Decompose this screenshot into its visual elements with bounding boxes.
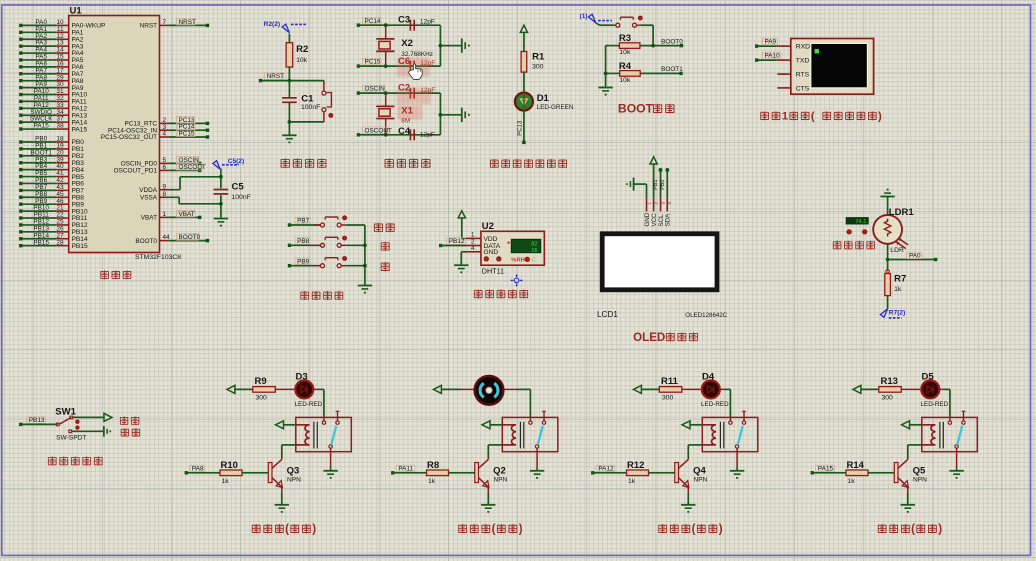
svg-text:OSCIN: OSCIN xyxy=(179,157,200,164)
wire X1 top xyxy=(385,93,387,106)
terminal PB12 xyxy=(439,244,442,247)
svg-text:LDR: LDR xyxy=(890,247,904,254)
wire crystal bus upper xyxy=(439,25,441,66)
wire relay to ground 继电器(除湿) xyxy=(536,448,538,466)
svg-text:PB1: PB1 xyxy=(653,180,659,190)
LDR brightness display xyxy=(846,218,868,224)
ground of Q2 xyxy=(481,505,495,513)
title 串口1窗口（模拟手机端） xyxy=(761,111,769,120)
svg-text:(: ( xyxy=(911,523,915,536)
svg-text:GND: GND xyxy=(484,249,499,256)
relay core 继电器(消毒) xyxy=(719,422,721,449)
wire PB13 to SW1 xyxy=(21,423,58,425)
relay coil 继电器(补光) xyxy=(922,425,936,445)
svg-text:SDA: SDA xyxy=(665,213,672,227)
wire PB8 to button xyxy=(290,244,321,246)
svg-text:(: ( xyxy=(492,523,496,536)
relay coil 继电器(除湿) xyxy=(502,425,516,445)
svg-text:TXD: TXD xyxy=(796,58,810,65)
terminal BOOT0 xyxy=(680,44,683,47)
pin PB6 (pin 42) of U1 xyxy=(21,182,56,184)
svg-text:C: C xyxy=(532,258,536,264)
svg-text:BOOT1: BOOT1 xyxy=(661,66,683,73)
svg-text:PA15: PA15 xyxy=(818,466,834,473)
pin PB10 (pin 21) of U1 xyxy=(21,210,56,212)
wire emitter to ground 继电器(加热) xyxy=(281,487,283,493)
pin PC14-OSC32_IN (pin 3) with net PC14 xyxy=(160,129,169,131)
wire down to relay contact 继电器(消毒) xyxy=(729,389,731,417)
wire VSSA to C5 xyxy=(169,196,180,198)
wire R13 to D5 xyxy=(901,388,921,390)
wire D5 to relay xyxy=(939,388,944,390)
wire emitter to ground 继电器(除湿) xyxy=(487,487,489,493)
wire coil to collector 继电器(除湿) xyxy=(488,444,502,446)
svg-text:VBAT: VBAT xyxy=(179,211,195,218)
resistor R14 xyxy=(846,470,868,476)
svg-text:D1: D1 xyxy=(537,93,550,104)
terminal PA8 xyxy=(185,471,188,474)
svg-text:RXD: RXD xyxy=(796,44,810,51)
wire coil to collector 继电器(消毒) xyxy=(688,444,702,446)
pin VDDA (pin 9) of U1 xyxy=(160,189,169,191)
svg-text:PC15-OSC32_OUT: PC15-OSC32_OUT xyxy=(101,134,157,141)
wire R3 to BOOT0 xyxy=(640,45,682,47)
ground sideways of SW1 xyxy=(104,426,111,437)
capacitor C5 xyxy=(214,189,229,191)
svg-text:1k: 1k xyxy=(222,478,230,485)
wire LDR to PA0 node xyxy=(887,244,889,260)
svg-text:): ) xyxy=(719,523,723,536)
pin NRST (pin 7) of U1 with net NRST xyxy=(160,24,169,26)
wire C5 vertical xyxy=(220,169,222,177)
wire R11 to D4 xyxy=(682,388,702,390)
svg-text:10k: 10k xyxy=(296,57,308,64)
svg-text:BOOT0: BOOT0 xyxy=(135,238,157,245)
pin PC13_RTC (pin 2) with net PC13 xyxy=(160,122,169,124)
resistor R7 xyxy=(885,274,891,296)
ground of Q5 xyxy=(901,505,915,513)
svg-text:SW1: SW1 xyxy=(55,406,76,417)
relay box 继电器(加热) xyxy=(296,417,352,451)
wire PA8 to R10 xyxy=(186,472,220,474)
wire PB7 to button xyxy=(290,224,321,226)
svg-text:NPN: NPN xyxy=(287,477,301,484)
ground above LDR xyxy=(880,189,894,197)
svg-text:): ) xyxy=(938,523,942,536)
terminal PC13 bottom xyxy=(522,141,525,144)
node bus-ground junction upper xyxy=(439,44,443,48)
svg-text:VDD: VDD xyxy=(484,236,498,243)
svg-text:PC15: PC15 xyxy=(365,59,381,66)
svg-text:8M: 8M xyxy=(401,118,410,125)
svg-text:LDR1: LDR1 xyxy=(889,207,915,218)
capacitor C3 xyxy=(409,20,411,31)
svg-text:(1): (1) xyxy=(580,13,588,20)
title 温湿度模块 xyxy=(474,290,482,299)
svg-text:LED-RED: LED-RED xyxy=(701,401,729,408)
pin VSSA (pin 8) of U1 xyxy=(160,196,169,198)
svg-text:X2: X2 xyxy=(401,38,413,49)
terminal BOOT1 xyxy=(679,72,682,75)
capacitor C1 xyxy=(282,97,297,99)
wire D4 to relay xyxy=(720,388,725,390)
node R4 junction xyxy=(604,72,608,76)
ground of relay contact 继电器(消毒) xyxy=(730,471,744,479)
pin VDD of U2 xyxy=(466,237,481,239)
wire PC15 row xyxy=(358,65,440,67)
wire PB9 to button xyxy=(290,265,321,267)
virtual terminal body xyxy=(791,39,874,95)
pin PB3 (pin 39) of U1 xyxy=(21,162,56,164)
svg-text:1: 1 xyxy=(646,202,651,205)
svg-text:PC15: PC15 xyxy=(179,130,195,137)
pin PB11 (pin 22) of U1 xyxy=(21,217,56,219)
svg-text:LCD1: LCD1 xyxy=(597,310,618,319)
terminal PA11 xyxy=(391,471,394,474)
svg-text:%RH: %RH xyxy=(511,258,525,264)
title 程序运行指示灯 xyxy=(490,159,498,168)
pin OSCOUT_PD1 (pin 6) with net OSCOUT xyxy=(160,169,169,171)
LDR adjust buttons xyxy=(847,230,851,234)
svg-text:4: 4 xyxy=(163,131,167,138)
relay core 继电器(加热) xyxy=(313,422,315,449)
svg-text:R4: R4 xyxy=(619,61,632,72)
svg-text:GND: GND xyxy=(644,212,651,226)
svg-text:74.1: 74.1 xyxy=(855,219,866,225)
svg-text:NPN: NPN xyxy=(913,477,927,484)
svg-text:8: 8 xyxy=(163,191,167,198)
wire GND of OLED xyxy=(635,183,647,185)
label 打开 xyxy=(120,416,128,425)
crystal X2 xyxy=(376,38,394,40)
wire arrow to R9 xyxy=(235,388,253,390)
svg-text:R7: R7 xyxy=(894,273,906,284)
pin GND of U2 xyxy=(466,251,481,253)
wire R7 bottom xyxy=(887,296,889,309)
relay contacts 继电器(除湿) xyxy=(529,421,532,424)
node PC15-X2 junction xyxy=(384,64,388,68)
wire PA15 to R14 xyxy=(812,472,846,474)
svg-text:STM32F103C8: STM32F103C8 xyxy=(135,254,181,261)
pin GND of LCD1 xyxy=(646,198,648,211)
svg-text:(: ( xyxy=(285,523,289,536)
pin VBAT (pin 1) with net VBAT xyxy=(160,216,169,218)
svg-text:PA15: PA15 xyxy=(34,123,50,130)
svg-text:1: 1 xyxy=(471,232,475,239)
wire button2 to bus xyxy=(341,244,346,246)
pin PA4 (pin 14) of U1 xyxy=(21,52,56,54)
pin PA10 (pin 31) of U1 xyxy=(21,94,56,96)
svg-text:PB15: PB15 xyxy=(33,239,49,246)
wire R3 left xyxy=(606,45,620,47)
svg-text:10k: 10k xyxy=(619,49,631,56)
terminal PA9 xyxy=(755,44,758,47)
svg-text:5: 5 xyxy=(163,157,167,164)
terminal PA12 xyxy=(591,471,594,474)
title 继电器(除湿) xyxy=(459,524,467,533)
probe marker R7(2) xyxy=(880,309,887,318)
relay box 继电器(消毒) xyxy=(702,417,758,451)
svg-text:R9: R9 xyxy=(255,376,267,387)
pin PA3 (pin 13) of U1 xyxy=(21,45,56,47)
motor/fan of 除湿 module xyxy=(473,375,504,406)
ground of relay contact 继电器(加热) xyxy=(323,471,337,479)
svg-text:12pF: 12pF xyxy=(420,131,435,138)
wire left bus R3-R4 xyxy=(605,46,607,74)
terminal arrow feed 继电器(加热) xyxy=(227,385,235,393)
crystal X1 xyxy=(376,105,394,107)
svg-text:12pF: 12pF xyxy=(420,87,435,94)
diode D5 LED-RED xyxy=(920,379,940,399)
U1 STM32F103C8 main chip body xyxy=(69,16,160,253)
wire crystal bus lower xyxy=(439,93,441,135)
pin PB7 (pin 43) of U1 xyxy=(21,189,56,191)
svg-text:PC13: PC13 xyxy=(517,120,523,136)
svg-text:PA0: PA0 xyxy=(909,252,921,259)
svg-text:Q4: Q4 xyxy=(693,465,706,476)
svg-text:): ) xyxy=(312,523,316,536)
resistor R12 xyxy=(627,470,649,476)
pin PA9 (pin 30) of U1 xyxy=(21,87,56,89)
svg-text:OLED: OLED xyxy=(633,331,665,344)
pin PA5 (pin 15) of U1 xyxy=(21,59,56,61)
ground of OLED xyxy=(626,178,633,191)
LCD1 OLED display module xyxy=(600,231,720,292)
DHT11 U2 body xyxy=(481,231,544,265)
wire C1 top xyxy=(288,81,290,98)
ground of Q4 xyxy=(681,505,695,513)
title 晶振电路 xyxy=(385,158,394,168)
wire reset button bottom xyxy=(323,112,325,122)
wire SCL of OLED xyxy=(660,170,662,198)
svg-text:100nF: 100nF xyxy=(301,104,320,111)
svg-text:R3: R3 xyxy=(619,33,631,44)
wire button1 to bus xyxy=(341,224,346,226)
transistor Q5 NPN xyxy=(907,458,909,459)
svg-text:VBAT: VBAT xyxy=(141,215,157,222)
wire coil to collector 继电器(补光) xyxy=(908,444,922,446)
resistor R10 xyxy=(220,470,242,476)
svg-text:28: 28 xyxy=(56,239,64,246)
wire down to relay contact 继电器(加热) xyxy=(323,389,325,417)
svg-text:OSCOUT_PD1: OSCOUT_PD1 xyxy=(114,168,158,175)
svg-text:1: 1 xyxy=(163,211,167,218)
wire OSCOUT row xyxy=(358,134,440,136)
push-button key2 xyxy=(321,243,325,247)
svg-text:PA12: PA12 xyxy=(598,466,614,473)
title 光照调节 xyxy=(833,241,841,250)
svg-text:10k: 10k xyxy=(619,77,631,84)
wire R14 to base xyxy=(868,472,894,474)
svg-text:3: 3 xyxy=(660,202,665,205)
wire R4 to BOOT1 xyxy=(640,72,681,74)
svg-text:16: 16 xyxy=(531,248,537,254)
relay core 继电器(除湿) xyxy=(519,422,521,449)
svg-text:(: ( xyxy=(811,111,815,123)
wire arrow to motor xyxy=(441,388,460,390)
pin BOOT1 (pin 20) of U1 xyxy=(21,155,56,157)
svg-text:300: 300 xyxy=(662,395,674,402)
svg-text:12pF: 12pF xyxy=(420,18,435,25)
pin DATA of U2 xyxy=(466,245,481,247)
svg-text:D4: D4 xyxy=(702,372,715,383)
wire emitter to ground 继电器(消毒) xyxy=(687,487,689,493)
pin PA11 (pin 32) of U1 xyxy=(21,100,56,102)
node bus-PB8 junction xyxy=(363,243,367,247)
terminal OSCOUT xyxy=(357,133,360,136)
terminal PC15 xyxy=(357,64,360,67)
wire X2 bottom xyxy=(385,51,387,66)
svg-text:NPN: NPN xyxy=(494,477,508,484)
wire relay to ground 继电器(加热) xyxy=(330,448,332,466)
svg-text:38: 38 xyxy=(56,123,64,130)
node OSCIN-X1 junction xyxy=(384,91,388,95)
pin PA15 (pin 38) of U1 xyxy=(21,128,56,130)
relay box 继电器(除湿) xyxy=(502,417,558,451)
coil arrow terminal 继电器(加热) xyxy=(276,421,284,429)
svg-text:C4: C4 xyxy=(398,126,411,137)
svg-text:2: 2 xyxy=(653,202,658,205)
resistor R9 xyxy=(253,387,275,393)
svg-text:CTS: CTS xyxy=(796,85,810,92)
wire down to relay contact 继电器(补光) xyxy=(949,389,951,417)
svg-text:PC14: PC14 xyxy=(365,18,381,25)
svg-text:VSSA: VSSA xyxy=(140,195,158,202)
node bus-ground junction lower xyxy=(439,113,443,117)
title 继电器(加热) xyxy=(252,524,260,533)
terminal PC14 xyxy=(357,24,360,27)
wire C1 to ground xyxy=(288,122,290,135)
svg-text:4: 4 xyxy=(667,202,672,205)
wire PA0 row xyxy=(888,259,936,261)
svg-text:1k: 1k xyxy=(428,478,436,485)
svg-text:PA8: PA8 xyxy=(192,466,204,473)
pin PB13 (pin 26) of U1 xyxy=(21,231,56,233)
wire R4 left xyxy=(606,72,620,74)
svg-text:PB9: PB9 xyxy=(297,258,310,265)
pin PB1 (pin 19) of U1 xyxy=(21,148,56,150)
terminal PB9 xyxy=(288,264,291,267)
wire bus to ground xyxy=(605,73,607,87)
terminal arrow 打开 xyxy=(104,413,112,421)
wire GND of DHT11 xyxy=(461,251,466,253)
relay lever 继电器(消毒) xyxy=(738,426,743,445)
wire to upper crystal ground xyxy=(440,45,461,47)
svg-text:1: 1 xyxy=(782,111,789,123)
wire reset button right branch xyxy=(323,81,325,92)
pin PB9 (pin 46) of U1 xyxy=(21,203,56,205)
title 继电器(消毒) xyxy=(659,524,667,533)
relay contacts 继电器(消毒) xyxy=(729,421,732,424)
svg-text:1k: 1k xyxy=(848,478,856,485)
wire R8 to base xyxy=(449,472,475,474)
pin PB5 (pin 41) of U1 xyxy=(21,176,56,178)
label 加 xyxy=(381,242,389,251)
wire NRST row xyxy=(261,80,324,82)
probe marker C5(2) xyxy=(213,161,220,170)
capacitor C4 xyxy=(409,129,411,140)
push-button key1 xyxy=(321,223,325,227)
capacitor C6 (selected) xyxy=(409,61,411,72)
highlight selection around C6 xyxy=(397,57,430,76)
relay core 继电器(补光) xyxy=(939,422,941,449)
resistor R4 xyxy=(620,71,641,77)
relay lever 继电器(加热) xyxy=(331,426,336,445)
pin VCC of LCD1 xyxy=(653,198,655,211)
svg-text:PB15: PB15 xyxy=(72,243,88,250)
wire emitter to ground 继电器(补光) xyxy=(907,487,909,493)
relay coil 继电器(加热) xyxy=(296,425,310,445)
origin marker of DHT11 xyxy=(511,274,523,286)
wire PC14 row xyxy=(358,24,440,26)
wire button bus xyxy=(364,225,366,285)
coil arrow terminal 继电器(消毒) xyxy=(682,421,690,429)
terminal PA0 xyxy=(934,258,937,261)
wire X1 bottom xyxy=(385,119,387,135)
DHT11 display xyxy=(511,239,540,252)
ground of BOOT divider xyxy=(598,88,612,96)
label 关闭 xyxy=(121,428,129,437)
node PA0 junction xyxy=(886,258,890,262)
wire SW1 to closed ground xyxy=(72,430,104,432)
coil arrow terminal 继电器(补光) xyxy=(902,421,910,429)
svg-text:): ) xyxy=(878,111,882,123)
svg-text:U1: U1 xyxy=(70,6,83,17)
svg-text:X1: X1 xyxy=(401,106,413,117)
pin PB14 (pin 27) of U1 xyxy=(21,238,56,240)
node OSCOUT-X1 junction xyxy=(384,133,388,137)
svg-text:SW-SPDT: SW-SPDT xyxy=(56,434,86,441)
ground of lower crystal xyxy=(462,108,470,122)
transistor Q3 NPN xyxy=(281,458,283,459)
switch SW1 SW-SPDT xyxy=(56,423,59,426)
node C1-ground junction xyxy=(288,120,292,124)
svg-text:R7(2): R7(2) xyxy=(889,310,906,317)
pin PB4 (pin 40) of U1 xyxy=(21,169,56,171)
wire to lower crystal ground xyxy=(440,114,461,116)
svg-text:PA15: PA15 xyxy=(72,126,88,133)
terminal arrow feed 继电器(除湿) xyxy=(433,385,441,393)
terminal PB13 xyxy=(19,423,22,426)
pin OSCIN_PD0 (pin 5) with net OSCIN xyxy=(160,162,169,164)
wire SW1 to open arrow xyxy=(73,416,104,418)
pin PB8 (pin 45) of U1 xyxy=(21,196,56,198)
svg-text:12pF: 12pF xyxy=(420,60,435,67)
pin PA8 (pin 29) of U1 xyxy=(21,80,56,82)
wire R2 bottom to NRST node xyxy=(288,67,290,81)
ground of relay contact 继电器(除湿) xyxy=(530,471,544,479)
transistor Q2 NPN xyxy=(487,458,489,459)
pin PB0 (pin 18) of U1 xyxy=(21,141,56,143)
ground of reset circuit xyxy=(282,135,296,143)
power arrow of LED circuit xyxy=(520,25,527,32)
svg-text:7: 7 xyxy=(163,19,167,26)
highlight selection around X1 xyxy=(397,105,422,120)
svg-text:C5: C5 xyxy=(232,182,245,193)
wire coil to collector 继电器(加热) xyxy=(282,444,296,446)
svg-text:): ) xyxy=(519,523,523,536)
svg-text:D3: D3 xyxy=(296,372,308,383)
svg-text:C1: C1 xyxy=(301,94,314,105)
wire X2 top xyxy=(385,25,387,38)
svg-text:R10: R10 xyxy=(221,460,238,471)
svg-text:300: 300 xyxy=(882,395,894,402)
wire R2 top xyxy=(288,34,290,43)
pin SWDIO (pin 34) of U1 xyxy=(21,114,56,116)
terminal PA15 xyxy=(811,471,814,474)
diode D3 LED-RED xyxy=(294,379,314,399)
pin PA1 (pin 11) of U1 xyxy=(21,31,56,33)
